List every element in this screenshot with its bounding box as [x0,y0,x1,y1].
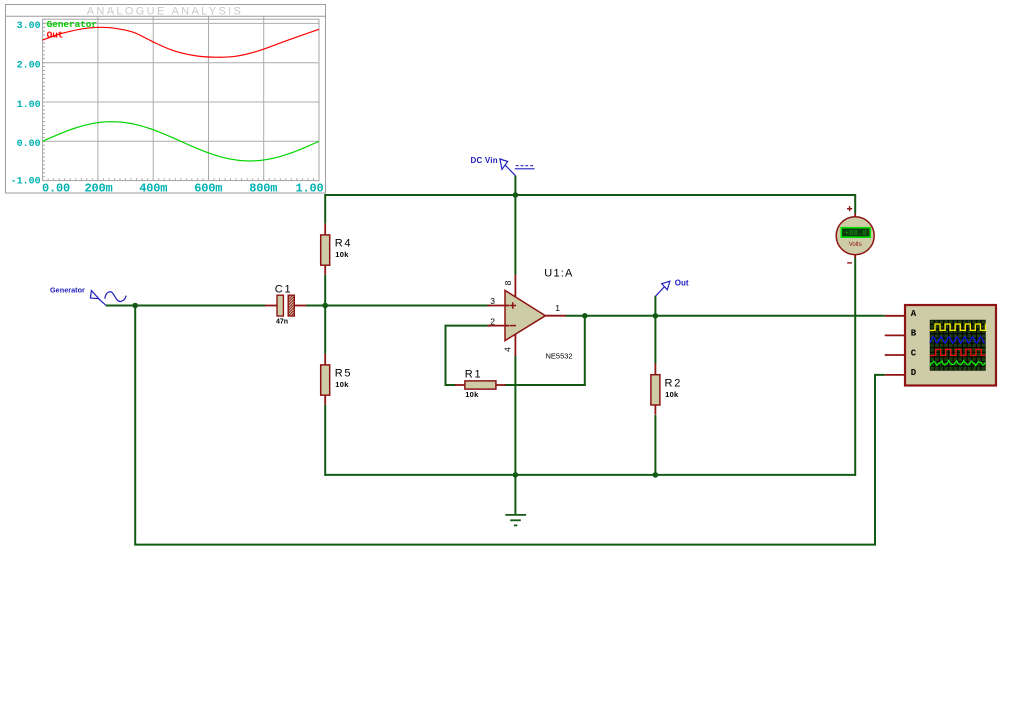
svg-text:-1.00: -1.00 [11,176,41,187]
graph legend Out [47,30,64,41]
wire bottom long run to scope D [134,375,885,545]
svg-text:3.00: 3.00 [17,21,41,32]
svg-text:200m: 200m [84,182,112,196]
wire R5 to bottom bus [324,405,326,476]
oscilloscope pin D [885,374,906,376]
graph axis ticks [43,19,319,180]
resistor R4 value 10k [335,250,349,259]
graph green curve Generator [43,122,319,161]
resistor R1 body [465,381,496,389]
op-amp U1 pin number 4 (rotated) [503,347,513,352]
graph title ANALOGUE ANALYSIS [87,6,244,18]
svg-text:10k: 10k [665,390,679,399]
oscilloscope pin B [885,334,906,336]
DC Vin probe symbol [500,159,516,176]
svg-text:Generator: Generator [50,286,85,295]
op-amp U1 pin number 1 [555,303,560,313]
wire generator node drop [134,306,136,545]
wire top bus to op-amp pin8 [514,195,516,275]
resistor R5 value 10k [335,380,349,389]
oscilloscope channel label A [911,309,917,319]
capacitor C1 label [275,284,293,296]
svg-text:+88.8: +88.8 [845,230,868,238]
svg-text:NE5532: NE5532 [546,352,573,361]
svg-text:10k: 10k [465,390,479,399]
voltmeter reading +88.8 [845,230,868,238]
oscilloscope trace B blue sine wave [930,337,985,343]
svg-text:Out: Out [675,278,689,287]
op-amp U1 pin number 8 (rotated) [503,280,513,285]
wire R2 to bottom bus [654,415,656,475]
wire feedback R1 right segment [505,384,586,386]
wire voltmeter bottom [854,258,856,476]
wire C1 to op-amp pin3 [306,305,490,307]
voltmeter plus terminal [847,206,852,211]
wire generator to C1 [106,305,266,307]
graph panel frame [6,5,326,194]
svg-text:8: 8 [503,280,513,285]
resistor R1 value 10k [465,390,479,399]
graph legend Generator [47,19,98,30]
wire voltmeter top [854,194,856,214]
svg-text:400m: 400m [139,182,167,196]
svg-text:47n: 47n [276,318,288,325]
svg-text:1.00: 1.00 [295,182,323,196]
resistor R2 value 10k [665,390,679,399]
graph x-axis labels [42,182,324,196]
wire bottom bus [325,474,855,476]
junction node DC Vin tap [513,192,519,198]
svg-text:Generator: Generator [47,19,98,30]
resistor R2 body [651,375,660,405]
wire op-amp output to scope A [565,315,885,317]
voltmeter pin stubs [854,213,856,258]
capacitor C1 right plate (hatched) [288,291,294,321]
svg-text:R4: R4 [335,238,353,250]
svg-text:1: 1 [555,303,560,313]
Out probe label [675,278,689,287]
capacitor C1 pin stubs [265,305,307,307]
oscilloscope pin C [885,354,906,356]
svg-text:C1: C1 [275,284,293,296]
Out probe symbol [656,281,670,296]
voltmeter LCD display [841,228,870,238]
generator probe symbol [90,291,106,306]
op-amp U1 minus input mark [510,325,517,327]
wire feedback left vertical [445,326,447,386]
op-amp U1 pin 2 stub [488,325,510,327]
graph gridlines [43,16,319,180]
junction node R2 bottom [653,472,659,478]
svg-text:Volts: Volts [849,242,862,248]
svg-text:10k: 10k [335,380,349,389]
oscilloscope channel label D [911,368,917,378]
op-amp U1 pin number 3 [490,296,495,306]
svg-text:R1: R1 [465,369,483,381]
resistor R5 body [321,365,330,395]
svg-text:2: 2 [490,317,495,327]
resistor R5 pin stubs [324,354,326,405]
DC Vin DC marker [515,166,535,169]
svg-text:B: B [911,329,917,339]
wire input node to R5 [324,306,326,354]
op-amp U1 part number NE5532 [546,352,573,361]
wire output node to R2 [654,316,656,364]
oscilloscope channel label C [911,348,917,358]
svg-text:ANALOGUE ANALYSIS: ANALOGUE ANALYSIS [87,6,244,18]
graph y-axis labels [11,21,41,187]
wire feedback vertical from output node [584,316,586,385]
svg-text:800m: 800m [249,182,277,196]
wire R4 to input node [324,275,326,306]
svg-text:R2: R2 [665,377,683,389]
wire op-amp pin4 to ground bus [514,356,516,475]
svg-text:1.00: 1.00 [17,100,41,111]
op-amp U1:A body [505,290,545,340]
resistor R5 label [335,368,353,380]
resistor R4 body [321,235,330,265]
op-amp U1 pin 4 stub [514,334,516,356]
oscilloscope channel label B [911,329,917,339]
resistor R1 pin stubs [455,384,506,386]
junction node input divider [322,303,328,309]
junction node output/R2 [653,313,659,319]
voltmeter Volts label [849,242,862,248]
resistor R1 label [465,369,483,381]
svg-text:0.00: 0.00 [42,182,70,196]
wire feedback to op-amp pin2 [445,325,491,327]
op-amp U1 reference label U1:A [544,268,573,280]
generator probe label [50,286,85,295]
op-amp U1 plus input mark [510,302,517,309]
oscilloscope trace C red square wave [930,349,986,355]
svg-text:A: A [911,309,917,319]
resistor R2 label [665,377,683,389]
oscilloscope trace A yellow square wave [930,324,986,330]
oscilloscope screen background [930,320,986,371]
svg-text:D: D [911,368,917,378]
op-amp U1 pin 3 stub [488,305,510,307]
junction node ground tap [513,472,519,478]
op-amp U1 pin number 2 [490,317,495,327]
svg-text:2.00: 2.00 [17,61,41,72]
oscilloscope body [905,305,996,386]
wire DC Vin stem [514,176,516,196]
DC Vin probe label [471,156,498,165]
wire top bus [325,194,855,196]
resistor R2 pin stubs [654,364,656,415]
voltmeter minus terminal [847,262,852,264]
svg-text:DC Vin: DC Vin [471,156,498,165]
capacitor C1 left plate [277,295,283,316]
ground symbol [505,475,526,526]
voltmeter body [836,217,874,255]
resistor R4 label [335,238,353,250]
svg-text:U1:A: U1:A [544,268,573,280]
svg-text:R5: R5 [335,368,353,380]
junction node generator tap [132,303,138,309]
capacitor C1 value 47n [276,318,288,325]
svg-text:C: C [911,348,917,358]
op-amp U1 pin 1 stub [545,315,566,317]
svg-text:600m: 600m [194,182,222,196]
wire left vertical upper (bus to R4) [324,194,326,224]
oscilloscope pin A [885,315,906,317]
svg-text:10k: 10k [335,250,349,259]
graph plot border [43,19,319,180]
oscilloscope trace D green noisy wave [930,361,985,367]
svg-text:0.00: 0.00 [17,139,41,150]
generator sine squiggle [105,292,126,302]
graph red curve Out [43,27,319,57]
svg-text:4: 4 [503,347,513,352]
op-amp U1 pin 8 stub [514,275,516,297]
wire out probe stem [654,296,656,316]
svg-text:3: 3 [490,296,495,306]
resistor R4 pin stubs [324,224,326,275]
wire feedback R1 left segment [446,384,456,386]
junction node feedback tap [582,313,588,319]
